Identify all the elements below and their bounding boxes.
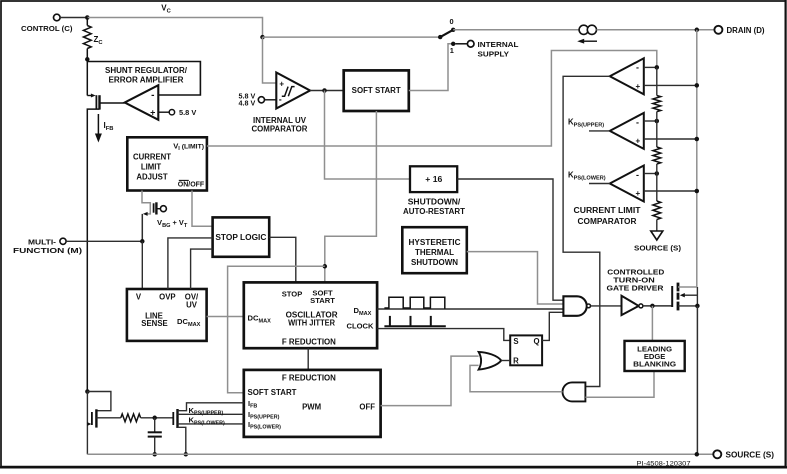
wire soft start to switch pole 1	[409, 44, 453, 91]
capacitor plates	[148, 431, 162, 433]
wire clock to latch S	[377, 329, 510, 341]
transistor sense FET2 channel bar	[176, 409, 178, 428]
transistor pass FET channel bar	[98, 95, 100, 109]
wire divider link1	[656, 67, 658, 95]
svg-text:COMPARATOR: COMPARATOR	[252, 124, 308, 133]
svg-text:SOURCE (S): SOURCE (S)	[634, 244, 682, 253]
terminal INTERNAL SUPPLY	[467, 41, 474, 48]
box SHUNT REGULATOR/ERROR AMPLIFIER	[87, 62, 200, 96]
terminal UV reference circle	[258, 97, 264, 103]
current arrow Ifb	[97, 114, 99, 138]
frame right edge	[784, 0, 786, 468]
wire comp1 minus stub	[644, 66, 657, 68]
svg-text:UV: UV	[186, 301, 198, 310]
wire comp3 plus stub	[644, 190, 697, 192]
wire control to Vc node	[60, 17, 87, 19]
wire Zc node down to pass fet	[86, 59, 88, 95]
node comp2 minus junction	[655, 119, 660, 124]
svg-text:SOFT START: SOFT START	[352, 86, 401, 95]
transistor Vbg FET arrow	[143, 212, 148, 216]
box LINE SENSE	[127, 289, 207, 341]
svg-text:0: 0	[450, 17, 454, 26]
node Ifb bottom junction	[85, 389, 90, 394]
svg-text:Q: Q	[533, 337, 539, 346]
wire driver to gate	[643, 305, 672, 307]
flip-flop SR latch	[510, 335, 542, 365]
svg-text:+: +	[279, 79, 284, 88]
svg-text:HYSTERETIC: HYSTERETIC	[409, 238, 461, 247]
wire Vi(limit) route	[207, 51, 657, 147]
switch lever	[440, 30, 453, 37]
wire +16 to nand	[457, 179, 563, 300]
bubble driver output	[639, 304, 643, 308]
svg-text:ADJUST: ADJUST	[136, 173, 167, 182]
wire soft start branch to pwm	[228, 266, 325, 393]
box +16	[410, 166, 457, 192]
node comp2 plus junction	[695, 137, 700, 142]
svg-text:-: -	[636, 170, 639, 180]
waveform clock tick 3	[430, 316, 432, 326]
comparator current limit middle	[610, 113, 644, 149]
svg-text:SUPPLY: SUPPLY	[478, 49, 510, 58]
symbol hysteresis	[282, 87, 295, 97]
svg-text:CURRENT LIMIT: CURRENT LIMIT	[574, 206, 641, 215]
wire Vc drop to switch	[263, 36, 441, 38]
svg-text:INTERNAL: INTERNAL	[478, 40, 520, 49]
wire ON/OFF to stop logic	[192, 191, 213, 227]
comparator current limit lower	[610, 166, 644, 202]
terminal MULTI-FUNCTION (M)	[60, 238, 66, 244]
wire thermal to nand	[467, 252, 564, 304]
svg-text:AUTO-RESTART: AUTO-RESTART	[403, 207, 465, 216]
node UV output junction	[322, 88, 327, 93]
wire comp3 minus stub	[644, 173, 657, 175]
resistor divider R3	[653, 201, 661, 220]
svg-text:+: +	[150, 108, 155, 118]
wire comp2 plus stub	[644, 138, 697, 140]
svg-text:SENSE: SENSE	[141, 319, 167, 328]
svg-text:SOURCE (S): SOURCE (S)	[726, 450, 775, 459]
resistor Zc	[83, 26, 91, 49]
svg-text:5.8 V: 5.8 V	[179, 108, 196, 117]
node switch pole 1	[451, 42, 455, 46]
wire source vertical	[696, 306, 698, 454]
wire DCmax to oscillator	[207, 316, 244, 318]
wire comp1 output route	[563, 76, 610, 386]
svg-text:R: R	[513, 357, 519, 366]
frame bottom edge	[0, 466, 787, 468]
resistor divider R1	[653, 96, 661, 112]
wire Q to nand	[542, 312, 563, 340]
transistor Vbg FET channel bar	[155, 202, 157, 214]
node comp3 minus junction	[655, 171, 660, 176]
node drain junction	[695, 28, 700, 33]
svg-text:WITH JITTER: WITH JITTER	[288, 319, 335, 328]
wire comp2 minus stub	[644, 120, 657, 122]
node M junction	[140, 239, 145, 244]
svg-text:THERMAL: THERMAL	[415, 248, 454, 257]
svg-text:-: -	[636, 117, 639, 127]
svg-text:F REDUCTION: F REDUCTION	[282, 338, 336, 347]
buffer gate driver	[622, 296, 639, 315]
svg-text:DRAIN (D): DRAIN (D)	[727, 26, 765, 35]
terminal SOURCE (S)	[713, 450, 721, 458]
svg-text:LIMIT: LIMIT	[141, 163, 162, 172]
wire Kps(lower) stub	[589, 183, 610, 185]
wire power fet body arrow	[684, 294, 697, 296]
op-amp error amplifier	[125, 85, 159, 120]
node comp3 plus junction	[695, 189, 700, 194]
node rail drain-leg junction	[695, 452, 700, 457]
box SOFT START	[344, 70, 409, 111]
current source IC	[579, 25, 588, 34]
wire stop logic to oscillator stop	[269, 237, 296, 282]
node cap junction	[152, 416, 157, 421]
svg-text:+: +	[635, 189, 640, 198]
node LEB tap junction	[650, 304, 655, 309]
wire pass FET source elbow	[87, 109, 99, 391]
resistor sense	[121, 414, 141, 422]
wire OV/UV to stop logic	[191, 249, 213, 289]
wire Vbg drain stub	[156, 208, 160, 210]
capacitor lead top	[154, 418, 156, 433]
wire pole1 to internal supply	[455, 43, 467, 45]
svg-text:SHUTDOWN: SHUTDOWN	[411, 258, 458, 267]
box LEADING EDGE BLANKING	[625, 341, 685, 371]
terminal Vbg output circle	[160, 206, 166, 212]
wire Kps lower to pwm	[178, 423, 244, 425]
wire UV output	[310, 90, 344, 92]
wire UV junction to +16	[325, 91, 411, 180]
wire divider link2	[656, 112, 658, 147]
svg-text:4.8 V: 4.8 V	[239, 99, 256, 108]
comparator current limit upper	[610, 58, 644, 94]
node fet2 rail junction	[184, 452, 189, 457]
transistor sense FET1 gate arrow	[87, 422, 91, 426]
wire UV minus stub	[265, 99, 277, 101]
wire Vc rail	[87, 18, 262, 38]
transistor sense FET2 gate bar	[172, 412, 174, 425]
svg-text:ERROR AMPLIFIER: ERROR AMPLIFIER	[109, 76, 184, 85]
svg-text:FUNCTION (M): FUNCTION (M)	[13, 246, 83, 255]
transistor power MOSFET channel segments	[677, 283, 680, 292]
svg-text:ON/OFF: ON/OFF	[178, 182, 205, 189]
svg-text:COMPARATOR: COMPARATOR	[578, 217, 637, 226]
terminal DRAIN (D)	[714, 26, 722, 34]
svg-text:BLANKING: BLANKING	[633, 360, 676, 369]
wire divider to ground	[656, 220, 658, 232]
wire Kps(upper) stub	[589, 130, 610, 132]
svg-text:1: 1	[450, 46, 454, 55]
current source arrow	[583, 40, 597, 42]
svg-text:CURRENT: CURRENT	[133, 153, 171, 162]
svg-text:+ 16: + 16	[425, 175, 443, 184]
wire drain vertical	[696, 30, 698, 287]
transistor pass FET gate arrow	[87, 95, 91, 97]
wire F reduction link	[307, 348, 309, 370]
svg-text:-: -	[279, 95, 282, 105]
wire op-amp plus to 5.8V	[158, 111, 169, 113]
wire comp1 plus stub	[644, 84, 697, 86]
node Vc drop junction	[260, 35, 265, 40]
wire OR to R	[501, 360, 510, 362]
wire gate of Vbg fet	[142, 191, 150, 214]
wire AND output to OR	[470, 365, 563, 391]
box HYSTERETIC THERMAL SHUTDOWN	[402, 227, 467, 273]
wire source rail	[87, 453, 713, 455]
wire sense FET1 source	[96, 417, 120, 419]
svg-text:S: S	[513, 337, 518, 346]
node soft start branch junction	[323, 264, 328, 269]
svg-text:STOP: STOP	[282, 290, 303, 299]
box OSCILLATOR WITH JITTER	[244, 282, 377, 348]
terminal CONTROL (C)	[54, 14, 61, 21]
node power fet source junction	[695, 304, 700, 309]
wire junction to sense fet drain	[87, 392, 111, 411]
node comp1 minus junction	[655, 65, 660, 70]
wire OVP to stop logic	[168, 238, 213, 289]
wire AND input LEB	[585, 371, 654, 397]
svg-text:PWM: PWM	[302, 402, 321, 411]
wire switch to current source	[453, 29, 579, 31]
svg-text:+: +	[635, 82, 640, 91]
waveform Dmax	[384, 297, 444, 308]
waveform clock baseline	[384, 325, 445, 327]
wire current source to drain	[597, 29, 715, 31]
wire Zc top lead	[86, 18, 88, 26]
wire sense FET2 source	[178, 427, 186, 454]
node cap rail junction	[152, 452, 157, 457]
transistor sense FET1 channel bar	[95, 409, 97, 427]
wire Dmax to nand	[377, 308, 563, 310]
transistor pass FET gate bar	[95, 95, 97, 109]
node switch pole 0	[451, 28, 455, 32]
svg-text:OVP: OVP	[159, 293, 175, 302]
bubble nand output	[587, 304, 591, 308]
transistor power MOSFET gate bar	[671, 286, 673, 307]
svg-text:GATE DRIVER: GATE DRIVER	[607, 283, 665, 292]
waveform clock tick 2	[410, 316, 412, 326]
wire soft start bottom route	[325, 111, 377, 282]
wire pass FET to op-amp output	[100, 102, 125, 104]
svg-text:STOP LOGIC: STOP LOGIC	[215, 233, 266, 242]
node comp1 plus junction	[695, 83, 700, 88]
svg-text:START: START	[310, 296, 335, 305]
wire UV plus input	[263, 37, 277, 83]
box PWM F REDUCTION	[244, 370, 381, 437]
svg-text:SHUTDOWN/: SHUTDOWN/	[408, 197, 461, 206]
svg-text:OFF: OFF	[359, 402, 375, 411]
nand-gate main NAND	[563, 296, 586, 316]
svg-text:CONTROL (C): CONTROL (C)	[21, 24, 73, 33]
wire M to junction	[66, 240, 142, 242]
box CURRENT LIMIT ADJUST	[127, 137, 207, 190]
wire nand to driver	[591, 305, 622, 307]
svg-text:PI-4508-120307: PI-4508-120307	[637, 461, 691, 468]
wire M junction to line sense V	[141, 241, 143, 289]
svg-text:CLOCK: CLOCK	[347, 322, 375, 331]
node Vc top junction	[85, 15, 90, 20]
wire power fet source stub	[678, 305, 697, 307]
svg-text:-: -	[636, 63, 639, 73]
wire OFF to OR gate	[381, 356, 479, 406]
wire power fet drain stub	[678, 286, 697, 288]
comparator internal UV	[276, 73, 310, 109]
transistor sense FET1 gate bar	[91, 412, 93, 425]
svg-text:F REDUCTION: F REDUCTION	[282, 374, 336, 383]
wire Kps upper to pwm	[178, 413, 244, 415]
svg-text:+: +	[635, 136, 640, 145]
or-gate reset OR	[479, 352, 502, 370]
and-gate mirrored LEB AND	[563, 382, 586, 401]
capacitor lead bottom	[154, 437, 156, 455]
wire Vbg fet to M node	[141, 214, 143, 241]
resistor divider R2	[653, 147, 661, 164]
transistor Vbg FET gate bar	[153, 203, 155, 212]
svg-text:SOFT START: SOFT START	[248, 388, 297, 397]
terminal 5.8V reference	[169, 110, 174, 115]
box STOP LOGIC	[213, 217, 270, 256]
wire junction down to rail	[86, 392, 88, 455]
ground source arrow	[651, 231, 663, 240]
node switch common	[438, 35, 442, 39]
waveform clock tick 1	[389, 316, 391, 326]
node Zc bottom junction	[85, 57, 90, 62]
wire divider link3	[656, 164, 658, 201]
wire resistor to cap node	[141, 417, 174, 419]
svg-text:SHUNT REGULATOR/: SHUNT REGULATOR/	[105, 66, 188, 75]
svg-text:-: -	[151, 90, 154, 101]
wire sense FET2 to Ifb	[178, 403, 244, 411]
svg-text:V: V	[136, 293, 142, 302]
wire Zc bottom lead	[86, 49, 88, 60]
wire LEB input	[651, 306, 653, 341]
